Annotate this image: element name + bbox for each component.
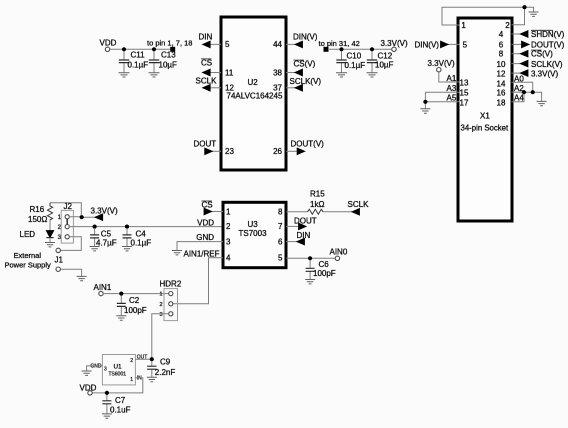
label External Power Supply: [5, 251, 52, 270]
ground: [90, 247, 100, 251]
svg-text:C10: C10: [347, 52, 362, 61]
capacitor C6: [306, 260, 336, 280]
svg-text:CS(V): CS(V): [531, 50, 553, 59]
pin 26 DOUT(V): [286, 140, 324, 155]
pin 6 DIN: [286, 231, 311, 245]
svg-text:0.1µF: 0.1µF: [345, 61, 366, 70]
pin 12 SCLK: [196, 77, 222, 91]
svg-text:DIN(V): DIN(V): [415, 41, 440, 50]
pin 10 SCLK(V): [512, 60, 563, 69]
ground: [77, 276, 87, 280]
svg-text:AIN1: AIN1: [94, 283, 112, 292]
junction: [119, 292, 123, 296]
svg-text:1: 1: [226, 207, 231, 216]
wire U1 IN to VDD rail: [92, 378, 143, 393]
svg-text:A0: A0: [514, 74, 524, 83]
svg-text:44: 44: [273, 40, 282, 49]
capacitor C7: [102, 395, 130, 415]
svg-text:6: 6: [499, 41, 504, 50]
pin 6 DOUT(V): [512, 41, 565, 50]
svg-text:SCLK(V): SCLK(V): [531, 60, 563, 69]
svg-text:1kΩ: 1kΩ: [310, 200, 324, 209]
svg-text:2: 2: [226, 222, 231, 231]
svg-text:TS7003: TS7003: [239, 229, 268, 238]
svg-text:C4: C4: [136, 230, 147, 239]
svg-text:CS: CS: [201, 59, 212, 68]
junction: [370, 47, 374, 51]
junction: [522, 90, 526, 94]
capacitor C12: [367, 51, 394, 73]
pin 4 SHDN(V): [512, 30, 565, 39]
svg-text:1: 1: [130, 377, 133, 383]
resistor R16: [28, 203, 53, 224]
wire node A0 pin14: [512, 74, 533, 92]
pin 12 3.3V(V): [512, 69, 559, 78]
op-amp U1 TS6001: [90, 355, 147, 385]
svg-text:8: 8: [499, 50, 504, 59]
svg-text:CS(V): CS(V): [294, 60, 316, 69]
node 3.3V(V): [381, 39, 408, 52]
capacitor C10: [336, 51, 365, 73]
svg-text:DIN(V): DIN(V): [293, 33, 318, 42]
svg-text:C11: C11: [131, 51, 146, 60]
svg-text:10µF: 10µF: [159, 61, 178, 70]
pin 5 DIN: [199, 33, 222, 48]
ground: [119, 73, 130, 77]
svg-text:U3: U3: [248, 220, 259, 229]
svg-text:1: 1: [461, 21, 466, 30]
capacitor C2: [117, 295, 147, 316]
capacitor C13: [149, 51, 177, 73]
junction: [80, 215, 84, 219]
svg-text:74ALVC164245: 74ALVC164245: [227, 92, 283, 101]
svg-text:External: External: [14, 251, 42, 260]
node 3.3V(V) arrow: [91, 206, 118, 220]
pin 38 CS(V): [286, 60, 316, 76]
wire J2 pin3 to J1: [60, 237, 81, 251]
pin 8 CS(V): [512, 50, 554, 59]
svg-text:SCLK: SCLK: [196, 77, 218, 86]
capacitor C9: [147, 358, 175, 378]
svg-text:3: 3: [104, 366, 107, 372]
svg-text:4: 4: [226, 254, 231, 263]
svg-text:HDR2: HDR2: [160, 279, 182, 288]
node VDD: [100, 39, 117, 52]
junction: [423, 100, 427, 104]
svg-text:16: 16: [497, 89, 506, 98]
svg-text:18: 18: [497, 98, 506, 107]
ground: [305, 280, 315, 284]
ground: [172, 251, 182, 255]
pin 7 DOUT: [286, 216, 317, 229]
svg-text:34-pin Socket: 34-pin Socket: [461, 124, 510, 133]
junction: [308, 256, 312, 260]
svg-text:C7: C7: [115, 396, 126, 405]
wire AIN1 to HDR2 pin1: [103, 293, 169, 295]
ground: [529, 12, 539, 16]
wire AIN1/REF pin4 to HDR2 pin2: [173, 258, 223, 304]
wire J2 pin1 to 3.3V arrow: [69, 216, 95, 218]
svg-text:2: 2: [159, 302, 162, 308]
svg-text:DOUT: DOUT: [194, 140, 217, 149]
ground: [102, 414, 112, 418]
ground: [147, 377, 157, 381]
svg-text:10: 10: [497, 60, 506, 69]
svg-text:U2: U2: [248, 78, 259, 87]
svg-text:C5: C5: [101, 230, 112, 239]
wire GND pin3: [177, 242, 223, 251]
terminal square to pin 31,42: [324, 47, 329, 52]
svg-text:X1: X1: [480, 112, 490, 121]
svg-text:A1: A1: [447, 74, 457, 83]
wire J1 pin2 to ground: [60, 269, 81, 276]
capacitor C11: [119, 51, 148, 73]
node SCLK: [348, 200, 370, 215]
svg-text:12: 12: [225, 84, 234, 93]
node AIN1: [94, 283, 112, 296]
svg-text:3: 3: [226, 237, 231, 246]
connector J1: [55, 248, 64, 271]
svg-text:Power Supply: Power Supply: [5, 261, 52, 270]
svg-text:DOUT: DOUT: [294, 216, 317, 225]
svg-text:100pF: 100pF: [313, 269, 336, 278]
ground: [537, 101, 547, 105]
svg-text:2.2nF: 2.2nF: [155, 368, 176, 377]
svg-text:7: 7: [278, 222, 283, 231]
svg-text:3.3V(V): 3.3V(V): [428, 59, 455, 68]
junction: [150, 357, 154, 361]
svg-text:150Ω: 150Ω: [28, 215, 47, 224]
junction: [152, 47, 156, 51]
wire VDD rail: [110, 48, 171, 50]
svg-text:to pin 31, 42: to pin 31, 42: [319, 39, 360, 48]
svg-text:DOUT(V): DOUT(V): [291, 140, 325, 149]
svg-text:8: 8: [278, 207, 283, 216]
svg-text:3.3V(V): 3.3V(V): [91, 206, 118, 215]
connector HDR2: [159, 279, 181, 320]
ground: [122, 247, 132, 251]
pin 23 DOUT: [194, 140, 222, 155]
svg-text:TS6001: TS6001: [109, 371, 127, 377]
svg-text:2: 2: [505, 21, 510, 30]
node VDD: [80, 383, 97, 395]
svg-text:37: 37: [273, 84, 282, 93]
node to pin 1,7,18 (terminal square): [147, 39, 192, 52]
ground: [336, 73, 347, 77]
svg-text:VDD: VDD: [197, 218, 214, 227]
pin 44 DIN(V): [286, 33, 318, 48]
wire U1 GND to ground: [87, 366, 103, 371]
resistor R15: [286, 190, 352, 215]
svg-text:U1: U1: [114, 363, 123, 370]
junction: [105, 391, 109, 395]
svg-text:GND: GND: [196, 233, 214, 242]
ground: [45, 243, 55, 247]
pin 11 CS: [201, 59, 221, 76]
svg-text:A4: A4: [514, 94, 524, 103]
svg-text:2: 2: [130, 358, 133, 364]
ground: [116, 316, 126, 320]
svg-text:26: 26: [273, 147, 282, 156]
wire U1 OUT to C9: [135, 358, 151, 360]
wire node A5 pin17: [425, 92, 459, 109]
svg-text:15: 15: [460, 89, 469, 98]
op-amp U2 74ALVC164245: [221, 17, 286, 170]
svg-text:5: 5: [225, 40, 230, 49]
node 3.3V(V) left: [428, 59, 455, 72]
svg-text:0.1µF: 0.1µF: [131, 239, 152, 248]
svg-text:C2: C2: [129, 296, 140, 305]
wire pin1 to pin2 top loop: [442, 7, 534, 25]
pin 37 SCLK(V): [286, 77, 321, 91]
capacitor C5: [90, 228, 117, 248]
connector X1 34-pin Socket: [458, 18, 512, 221]
svg-text:SCLK: SCLK: [348, 200, 370, 209]
svg-text:A3: A3: [447, 84, 457, 93]
ground: [149, 73, 160, 77]
junction: [122, 47, 126, 51]
svg-text:38: 38: [273, 69, 282, 78]
wire pin5 to AIN0: [286, 257, 335, 259]
wire node A2 pin16: [512, 84, 542, 102]
svg-text:3: 3: [159, 312, 162, 318]
svg-text:1: 1: [159, 292, 162, 298]
svg-text:J1: J1: [55, 256, 64, 265]
wire R16 top to 3.3V rail: [50, 203, 81, 218]
wire node A3 pin15: [425, 84, 459, 93]
svg-text:23: 23: [225, 147, 234, 156]
svg-text:3.3V(V): 3.3V(V): [531, 69, 558, 78]
svg-text:13: 13: [460, 79, 469, 88]
svg-text:C12: C12: [378, 52, 393, 61]
svg-text:R15: R15: [310, 190, 325, 199]
svg-text:0.1µF: 0.1µF: [128, 61, 149, 70]
svg-text:11: 11: [225, 69, 234, 78]
junction: [522, 5, 526, 9]
ground: [367, 73, 378, 77]
LED: [20, 220, 54, 243]
pin 5 DIN(V): [415, 41, 460, 50]
svg-text:LED: LED: [20, 230, 36, 239]
junction: [125, 225, 129, 229]
wire HDR2 pin3 to C9 node: [152, 314, 169, 359]
wire 3.3V to pin13 / node A1: [439, 72, 460, 83]
svg-text:C9: C9: [160, 358, 171, 367]
junction: [339, 47, 343, 51]
ground: [420, 109, 430, 113]
wire 3.3V rail: [328, 48, 392, 50]
svg-text:17: 17: [460, 98, 469, 107]
svg-text:A5: A5: [447, 94, 457, 103]
svg-text:0.1uF: 0.1uF: [110, 406, 131, 415]
op-amp U3 TS7003: [223, 202, 286, 267]
wire VDD rail J2 pin2 to U3 pin2: [69, 226, 223, 228]
svg-text:C6: C6: [319, 260, 330, 269]
svg-text:5: 5: [278, 254, 283, 263]
svg-text:DIN: DIN: [199, 33, 213, 42]
pin 1 CS: [202, 201, 224, 215]
svg-text:DOUT(V): DOUT(V): [531, 41, 565, 50]
svg-text:6: 6: [278, 237, 283, 246]
svg-text:12: 12: [497, 69, 506, 78]
svg-text:SCLK(V): SCLK(V): [290, 77, 322, 86]
svg-text:CS: CS: [202, 201, 213, 210]
svg-text:AIN0: AIN0: [330, 248, 348, 257]
svg-text:R16: R16: [30, 205, 45, 214]
svg-text:14: 14: [497, 79, 506, 88]
node AIN0: [330, 248, 348, 261]
ground: [82, 371, 92, 375]
svg-text:VDD: VDD: [80, 383, 97, 392]
svg-text:10µF: 10µF: [375, 61, 394, 70]
junction: [93, 225, 97, 229]
svg-text:SHDN(V): SHDN(V): [531, 30, 565, 39]
svg-text:100pF: 100pF: [124, 306, 147, 315]
svg-text:4: 4: [499, 30, 504, 39]
svg-text:5: 5: [463, 41, 468, 50]
svg-text:C13: C13: [161, 51, 176, 60]
svg-text:VDD: VDD: [100, 39, 117, 48]
capacitor C4: [123, 228, 152, 248]
wire node A4 pin18: [512, 92, 525, 102]
svg-text:J2: J2: [64, 202, 73, 211]
svg-text:to pin 1, 7, 18: to pin 1, 7, 18: [147, 39, 192, 48]
connector J2: [58, 202, 74, 243]
junction: [531, 90, 535, 94]
